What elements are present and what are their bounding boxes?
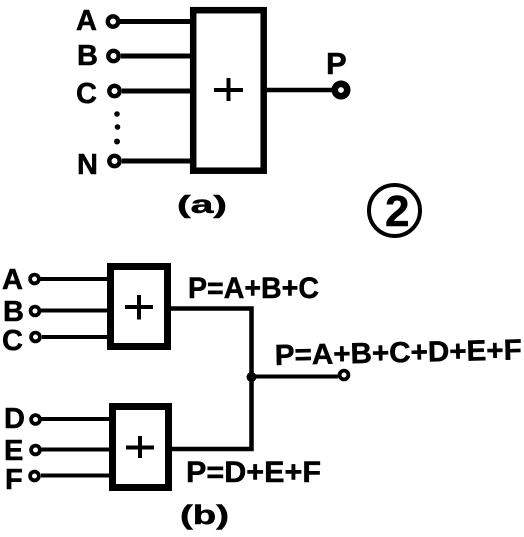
svg-text:(a): (a): [177, 191, 227, 219]
svg-text:P=A+B+C: P=A+B+C: [188, 272, 319, 305]
wire A: [120, 19, 193, 24]
svg-text:P: P: [326, 46, 347, 81]
svg-text:P=A+B+C+D+E+F: P=A+B+C+D+E+F: [274, 334, 522, 372]
terminal A (b): [30, 275, 39, 284]
svg-text:C: C: [2, 325, 23, 357]
figure number 2 circle: [369, 185, 420, 236]
svg-text:P=D+E+F: P=D+E+F: [186, 456, 321, 489]
terminal D: [31, 415, 40, 424]
wire A (b): [40, 277, 110, 281]
terminal F: [30, 472, 39, 481]
wire D: [41, 417, 112, 421]
svg-text:B: B: [3, 296, 24, 328]
terminal E: [31, 446, 40, 455]
output wire (b): [252, 375, 339, 379]
plus sign (a): [214, 78, 243, 101]
terminal B: [108, 51, 118, 61]
junction dot: [247, 372, 257, 382]
wire C: [122, 89, 193, 94]
svg-text:D: D: [4, 403, 25, 435]
wire E: [41, 448, 112, 452]
svg-text:N: N: [77, 149, 98, 181]
wire N: [122, 159, 193, 164]
terminal B (b): [31, 307, 40, 316]
svg-text:A: A: [76, 5, 97, 37]
svg-text:E: E: [4, 435, 23, 467]
svg-text:B: B: [77, 40, 98, 72]
svg-text:C: C: [76, 78, 97, 110]
summing block U1: [111, 267, 168, 347]
wire B (b): [41, 309, 110, 313]
terminal A: [108, 16, 118, 26]
summing block U2: [113, 407, 169, 488]
wire B: [121, 54, 193, 59]
plus sign U1: [125, 295, 153, 320]
plus sign U2: [126, 436, 154, 458]
ellipsis dots: [114, 111, 120, 144]
svg-text:F: F: [5, 464, 23, 496]
output terminal (b): [340, 371, 349, 380]
terminal N: [109, 156, 119, 166]
summing block (a): [193, 10, 264, 171]
wire F: [41, 474, 112, 478]
svg-text:2: 2: [385, 187, 409, 236]
wire C (b): [42, 335, 110, 339]
svg-text:A: A: [2, 264, 23, 296]
terminal C: [109, 86, 119, 96]
svg-text:(b): (b): [180, 500, 229, 530]
output wire P: [267, 88, 333, 93]
output terminal P: [335, 84, 347, 96]
terminal C (b): [31, 333, 40, 342]
wire U2 output to junction: [172, 377, 252, 449]
wire U1 output to junction: [171, 309, 252, 378]
